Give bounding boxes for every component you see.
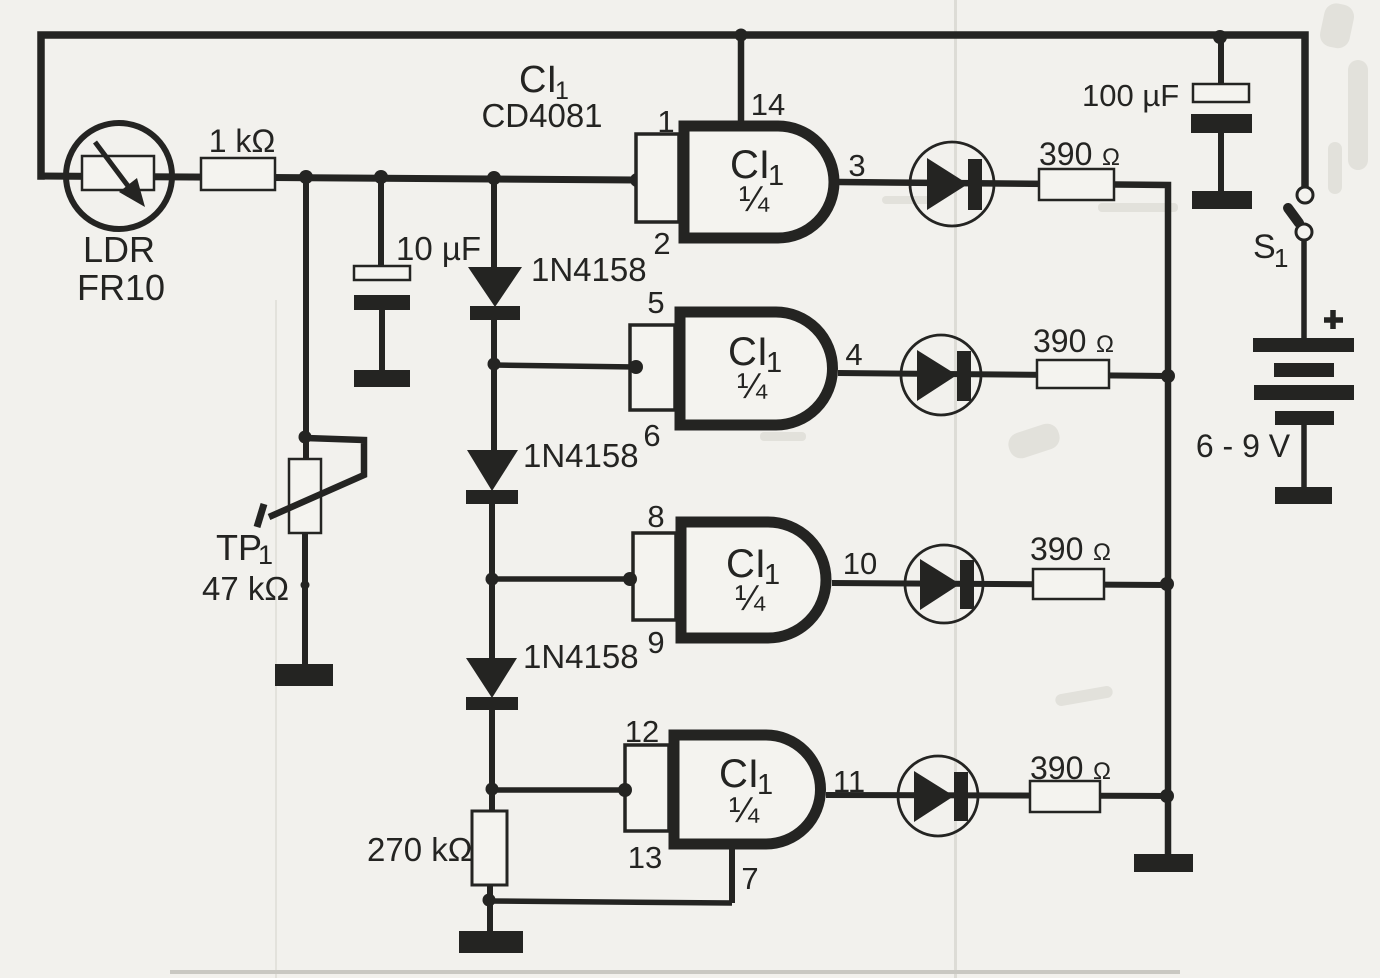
resistor 1 kOhm (201, 158, 275, 190)
svg-text:3: 3 (848, 148, 865, 183)
svg-text:390: 390 (1033, 323, 1086, 359)
wire: pin 7 drop (729, 849, 735, 903)
svg-text:¼: ¼ (737, 365, 768, 406)
svg-text:1: 1 (657, 104, 674, 139)
wire: row2 gate out to bus (838, 373, 1168, 376)
scan streak bottom (170, 970, 1180, 974)
svg-text:100 µF: 100 µF (1082, 78, 1179, 113)
wire: 100uF cap top lead (1218, 35, 1224, 86)
svg-text:TP: TP (216, 527, 262, 568)
node: gate 3 input (623, 572, 637, 586)
potentiometer TP1 47k (257, 177, 364, 664)
diode D1 1N4158 (468, 267, 522, 450)
svg-text:47 kΩ: 47 kΩ (202, 570, 289, 607)
svg-text:1 kΩ: 1 kΩ (209, 123, 276, 159)
node: chain to gate4 (486, 783, 499, 796)
node: gate 1 input (630, 173, 644, 187)
wire: pin 14 drop from rail (738, 35, 745, 122)
diode D3 1N4158 (466, 658, 518, 812)
LED 4 (898, 756, 978, 836)
node: main wire diode chain branch (487, 171, 501, 185)
wire: 100uF cap bottom lead (1218, 131, 1224, 193)
node: gate 2 input (629, 360, 643, 374)
svg-text:1N4158: 1N4158 (523, 638, 639, 675)
node: chain to gate3 (486, 573, 499, 586)
switch S1 (1288, 187, 1313, 340)
wire: chain to gate 4 input (492, 787, 625, 793)
svg-text:Ω: Ω (1096, 331, 1114, 358)
svg-text:390: 390 (1030, 750, 1083, 786)
svg-text:270 kΩ: 270 kΩ (367, 831, 472, 868)
node: rail junction 100uF (1213, 30, 1227, 44)
LDR FR10 photoresistor (66, 123, 172, 229)
svg-text:Ω: Ω (1093, 758, 1111, 785)
svg-text:1N4158: 1N4158 (531, 251, 647, 288)
svg-text:4: 4 (845, 337, 862, 372)
label plus (1324, 310, 1343, 329)
svg-text:10 µF: 10 µF (396, 230, 481, 267)
svg-text:12: 12 (625, 714, 659, 749)
svg-text:1: 1 (764, 559, 780, 591)
wire: battery to ground (1301, 425, 1307, 488)
svg-text:¼: ¼ (735, 577, 766, 618)
capacitor 100uF (1191, 84, 1252, 133)
plate bar 100uF bottom (1192, 191, 1252, 209)
node: main wire TP1 branch (299, 170, 313, 184)
AND gate CI1-d (pins 12,13 -> 11) (625, 735, 820, 844)
svg-text:6: 6 (643, 418, 660, 453)
wire: row4 gate out to bus (826, 795, 1168, 796)
wire: row3 gate out to bus (832, 583, 1168, 585)
wire: main horizontal line LDR to gate 1 input (41, 176, 637, 180)
node: bus row4 (1160, 789, 1174, 803)
ground: 270k (459, 931, 523, 953)
wire: chain to gate 3 input (492, 576, 633, 582)
wire: below 270k (487, 885, 493, 931)
svg-text:8: 8 (647, 499, 664, 534)
node: chain to gate2 (488, 358, 501, 371)
svg-text:S: S (1253, 228, 1276, 266)
AND gate CI1-c (pins 8,9 -> 10) (633, 522, 826, 638)
resistor 390 row4 (1030, 781, 1100, 812)
wire: chain to gate 2 input (494, 365, 636, 367)
resistor 390 row3 (1033, 569, 1104, 599)
svg-text:CD4081: CD4081 (481, 97, 602, 134)
svg-text:¼: ¼ (739, 178, 770, 219)
svg-text:390: 390 (1039, 136, 1092, 172)
wire: junction to pin 7 (489, 901, 732, 903)
resistor 390 row2 (1037, 360, 1109, 388)
svg-text:1: 1 (258, 540, 273, 570)
AND gate CI1-b (pins 5,6 -> 4) (630, 312, 833, 425)
AND gate CI1-a (pins 1,2 -> 3) (636, 126, 834, 238)
battery 6-9V (1253, 338, 1354, 425)
node: 270k bottom junction (483, 894, 496, 907)
svg-text:14: 14 (751, 87, 785, 122)
wire: top supply rail with left and right drops (41, 35, 1305, 187)
node: bus row3 (1160, 577, 1174, 591)
resistor 390 row1 (1039, 169, 1114, 200)
capacitor 10uF (354, 177, 410, 371)
svg-text:1: 1 (766, 347, 782, 379)
wire: row1 gate out to bus (839, 182, 1168, 855)
svg-text:Ω: Ω (1093, 539, 1111, 566)
LED 1 (910, 142, 994, 226)
ground: bus bottom (1134, 854, 1193, 872)
LED 2 (901, 335, 981, 415)
scan smudges top right (760, 1, 1368, 707)
svg-text:9: 9 (647, 625, 664, 660)
svg-text:Ω: Ω (1102, 144, 1120, 171)
svg-text:1: 1 (768, 160, 784, 192)
svg-text:LDR: LDR (83, 229, 155, 270)
svg-text:1N4158: 1N4158 (523, 437, 639, 474)
svg-text:1: 1 (1274, 243, 1288, 273)
diode D2 1N4158 (466, 450, 518, 658)
scan fold line vertical (954, 0, 957, 978)
ground: battery (1275, 487, 1332, 504)
svg-text:10: 10 (843, 546, 877, 581)
ground: 10uF (354, 370, 410, 387)
resistor 270 kOhm (472, 811, 507, 885)
node: rail junction pin14 (735, 29, 748, 42)
svg-text:6 - 9 V: 6 - 9 V (1196, 428, 1291, 464)
scan fold line vertical left (275, 300, 277, 978)
svg-text:5: 5 (647, 285, 664, 320)
svg-text:13: 13 (628, 840, 662, 875)
node: gate 4 input (618, 783, 632, 797)
svg-text:390: 390 (1030, 531, 1083, 567)
diode chain vertical wire top (491, 178, 497, 268)
node: bus row2 (1161, 369, 1175, 383)
node: main wire 10uF branch (374, 170, 388, 184)
svg-text:7: 7 (741, 861, 758, 896)
ground: TP1 (275, 664, 333, 686)
LED 3 (905, 545, 983, 623)
svg-text:2: 2 (653, 226, 670, 261)
svg-text:¼: ¼ (729, 789, 760, 830)
svg-text:FR10: FR10 (77, 267, 165, 308)
svg-text:CI: CI (519, 59, 557, 101)
svg-text:1: 1 (757, 769, 773, 801)
